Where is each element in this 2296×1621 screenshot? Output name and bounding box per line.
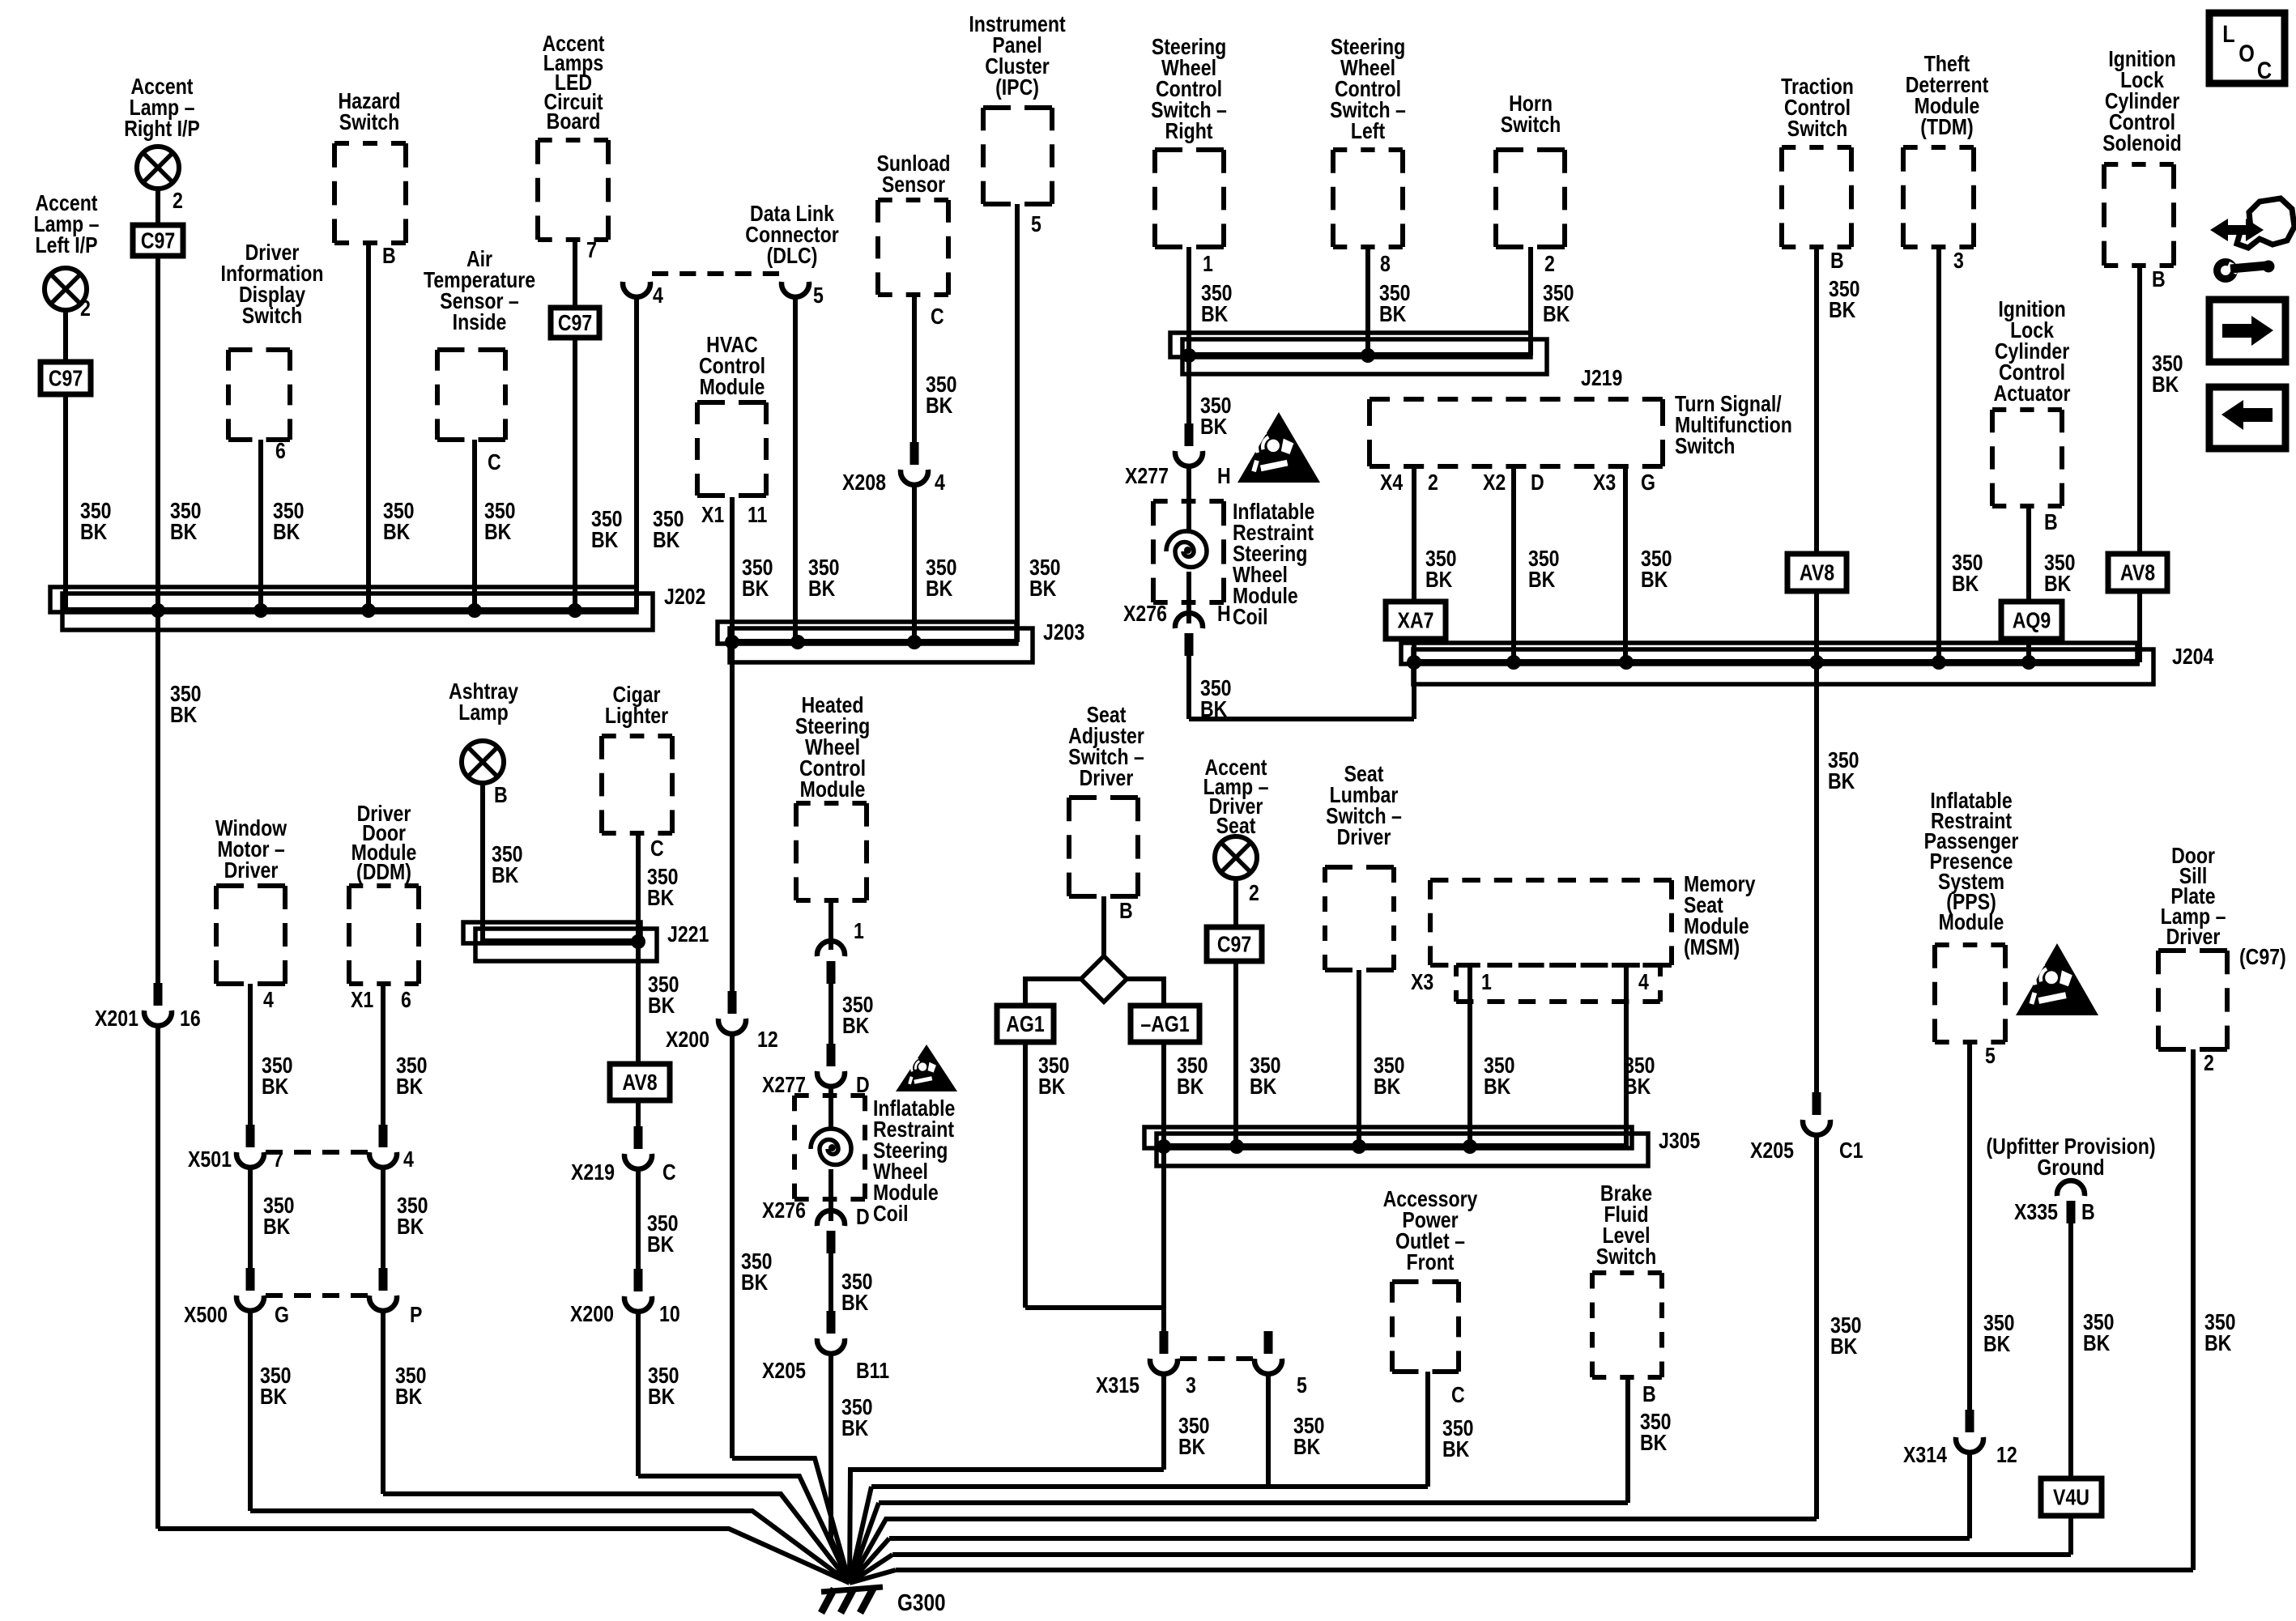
svg-text:L: L <box>2222 20 2234 48</box>
svg-text:X276: X276 <box>1123 602 1167 626</box>
svg-text:350BK: 350BK <box>1543 281 1574 326</box>
svg-text:IgnitionLockCylinderControlSol: IgnitionLockCylinderControlSolenoid <box>2102 47 2181 155</box>
svg-text:350BK: 350BK <box>842 993 874 1038</box>
svg-text:12: 12 <box>757 1027 778 1052</box>
svg-text:350BK: 350BK <box>492 842 523 887</box>
svg-text:350BK: 350BK <box>1029 555 1061 601</box>
svg-text:X335: X335 <box>2014 1200 2058 1224</box>
svg-text:X200: X200 <box>666 1027 709 1052</box>
svg-text:350BK: 350BK <box>648 1364 679 1409</box>
svg-text:350BK: 350BK <box>1952 551 1983 596</box>
svg-text:CigarLighter: CigarLighter <box>605 683 668 728</box>
svg-text:350BK: 350BK <box>1640 1410 1672 1455</box>
svg-text:350BK: 350BK <box>1178 1414 1210 1459</box>
svg-text:D: D <box>856 1073 870 1097</box>
svg-text:350BK: 350BK <box>2044 551 2076 596</box>
svg-text:X276: X276 <box>762 1198 806 1223</box>
svg-text:7: 7 <box>273 1147 283 1172</box>
svg-text:WindowMotor –Driver: WindowMotor –Driver <box>215 816 287 883</box>
svg-text:350BK: 350BK <box>926 372 957 418</box>
svg-text:TractionControlSwitch: TractionControlSwitch <box>1781 74 1854 141</box>
svg-text:4: 4 <box>403 1147 414 1172</box>
svg-text:D: D <box>1531 470 1544 495</box>
svg-text:C: C <box>2257 57 2272 84</box>
svg-text:AshtrayLamp: AshtrayLamp <box>449 679 518 725</box>
svg-text:J219: J219 <box>1581 366 1622 390</box>
svg-text:350BK: 350BK <box>1177 1053 1208 1099</box>
svg-text:J221: J221 <box>667 922 709 947</box>
svg-text:C97: C97 <box>141 229 175 253</box>
svg-text:IgnitionLockCylinderControlAct: IgnitionLockCylinderControlActuator <box>1994 297 2071 406</box>
svg-text:11: 11 <box>748 503 767 527</box>
svg-text:350BK: 350BK <box>170 499 202 544</box>
svg-text:X205: X205 <box>762 1359 806 1383</box>
svg-text:HazardSwitch: HazardSwitch <box>339 89 401 134</box>
svg-text:3: 3 <box>1186 1373 1196 1398</box>
svg-text:350BK: 350BK <box>741 1249 773 1295</box>
svg-text:SunloadSensor: SunloadSensor <box>876 151 950 197</box>
svg-text:–AG1: –AG1 <box>1140 1012 1189 1036</box>
svg-text:7: 7 <box>586 238 597 262</box>
svg-text:X2: X2 <box>1483 470 1506 495</box>
svg-text:X205: X205 <box>1750 1138 1794 1163</box>
svg-text:5: 5 <box>1297 1373 1307 1398</box>
svg-text:6: 6 <box>275 439 286 463</box>
svg-text:5: 5 <box>1985 1044 1996 1068</box>
svg-text:HVACControlModule: HVACControlModule <box>699 333 765 399</box>
svg-text:AQ9: AQ9 <box>2013 609 2051 633</box>
svg-text:2: 2 <box>1249 881 1259 905</box>
svg-text:3: 3 <box>1953 249 1964 273</box>
svg-text:350BK: 350BK <box>263 1193 295 1239</box>
svg-text:C: C <box>488 450 501 474</box>
svg-text:X314: X314 <box>1903 1443 1947 1467</box>
svg-text:D: D <box>856 1205 870 1229</box>
svg-text:C: C <box>662 1160 676 1185</box>
svg-text:2: 2 <box>173 189 183 213</box>
svg-text:350BK: 350BK <box>1250 1053 1281 1099</box>
svg-text:350BK: 350BK <box>648 972 679 1018</box>
svg-text:350BK: 350BK <box>841 1395 873 1440</box>
svg-text:C97: C97 <box>558 311 592 335</box>
svg-text:AV8: AV8 <box>622 1070 657 1095</box>
svg-text:350BK: 350BK <box>1442 1416 1474 1461</box>
svg-text:X219: X219 <box>571 1160 615 1185</box>
svg-text:X201: X201 <box>95 1006 138 1031</box>
svg-text:350BK: 350BK <box>1528 547 1560 592</box>
svg-text:AccentLamp –Left I/P: AccentLamp –Left I/P <box>34 191 100 257</box>
svg-text:350BK: 350BK <box>1641 547 1672 592</box>
svg-text:350BK: 350BK <box>484 499 516 544</box>
svg-text:H: H <box>1217 602 1231 626</box>
svg-text:C: C <box>1451 1383 1465 1407</box>
svg-text:J202: J202 <box>664 585 705 609</box>
svg-text:B: B <box>1830 249 1844 273</box>
svg-text:X1: X1 <box>351 988 373 1012</box>
svg-text:4: 4 <box>1638 970 1649 994</box>
svg-text:B11: B11 <box>856 1359 889 1383</box>
svg-text:350BK: 350BK <box>1484 1053 1515 1099</box>
svg-text:V4U: V4U <box>2053 1486 2089 1510</box>
svg-text:X208: X208 <box>842 470 886 495</box>
svg-text:350BK: 350BK <box>395 1364 427 1409</box>
svg-text:350BK: 350BK <box>396 1053 428 1099</box>
svg-text:AV8: AV8 <box>2120 561 2155 585</box>
svg-text:10: 10 <box>659 1302 680 1326</box>
svg-text:8: 8 <box>1380 252 1391 276</box>
svg-text:2: 2 <box>80 296 91 321</box>
svg-text:B: B <box>494 783 508 807</box>
svg-text:350BK: 350BK <box>1374 1053 1405 1099</box>
svg-text:X3: X3 <box>1411 970 1433 994</box>
svg-text:AV8: AV8 <box>1800 561 1834 585</box>
svg-text:P: P <box>410 1303 422 1327</box>
svg-text:350BK: 350BK <box>1200 394 1232 439</box>
svg-text:1: 1 <box>854 919 864 943</box>
svg-text:X500: X500 <box>184 1303 228 1327</box>
svg-text:350BK: 350BK <box>273 499 305 544</box>
svg-text:H: H <box>1217 464 1231 488</box>
svg-text:X3: X3 <box>1593 470 1616 495</box>
svg-text:350BK: 350BK <box>262 1053 293 1099</box>
svg-text:2: 2 <box>1544 252 1555 276</box>
svg-text:16: 16 <box>180 1006 201 1031</box>
svg-text:X1: X1 <box>701 503 724 527</box>
svg-text:350BK: 350BK <box>841 1270 873 1315</box>
svg-text:O: O <box>2238 40 2255 67</box>
svg-text:X501: X501 <box>188 1147 232 1172</box>
svg-text:G: G <box>275 1303 289 1327</box>
svg-text:C97: C97 <box>49 367 83 391</box>
svg-text:12: 12 <box>1996 1443 2017 1467</box>
svg-text:350BK: 350BK <box>383 499 415 544</box>
svg-text:DriverDoorModule(DDM): DriverDoorModule(DDM) <box>351 802 417 884</box>
svg-text:4: 4 <box>653 283 663 308</box>
svg-text:350BK: 350BK <box>260 1364 292 1409</box>
svg-text:350BK: 350BK <box>1293 1414 1325 1459</box>
svg-text:5: 5 <box>1031 212 1042 236</box>
svg-text:J204: J204 <box>2172 645 2213 669</box>
svg-text:C1: C1 <box>1839 1138 1864 1163</box>
svg-text:350BK: 350BK <box>653 507 684 552</box>
svg-text:350BK: 350BK <box>742 555 773 601</box>
svg-text:B: B <box>2044 510 2058 534</box>
svg-text:X277: X277 <box>762 1073 806 1097</box>
svg-text:5: 5 <box>813 283 824 308</box>
svg-text:350BK: 350BK <box>397 1193 428 1239</box>
svg-text:350BK: 350BK <box>1425 547 1457 592</box>
svg-text:350BK: 350BK <box>1038 1053 1070 1099</box>
svg-text:350BK: 350BK <box>1829 277 1860 322</box>
svg-text:J203: J203 <box>1043 620 1084 645</box>
svg-text:XA7: XA7 <box>1398 609 1434 633</box>
svg-text:X200: X200 <box>570 1302 614 1326</box>
svg-text:350BK: 350BK <box>647 865 679 910</box>
svg-text:(C97): (C97) <box>2239 945 2286 969</box>
svg-text:350BK: 350BK <box>1200 676 1232 721</box>
svg-text:G300: G300 <box>897 1589 946 1615</box>
svg-text:HornSwitch: HornSwitch <box>1501 91 1561 137</box>
svg-text:1: 1 <box>1481 970 1492 994</box>
svg-text:B: B <box>2081 1200 2095 1224</box>
svg-text:AccentLamp –Right I/P: AccentLamp –Right I/P <box>124 74 200 141</box>
svg-text:X315: X315 <box>1096 1373 1139 1398</box>
svg-text:350BK: 350BK <box>2083 1310 2115 1355</box>
svg-text:C: C <box>931 304 944 329</box>
svg-text:B: B <box>1119 899 1133 923</box>
svg-text:350BK: 350BK <box>647 1211 679 1257</box>
svg-text:1: 1 <box>1203 252 1213 276</box>
svg-text:BrakeFluidLevelSwitch: BrakeFluidLevelSwitch <box>1596 1181 1656 1269</box>
svg-text:6: 6 <box>401 988 411 1012</box>
svg-text:4: 4 <box>263 988 274 1012</box>
svg-text:350BK: 350BK <box>80 499 112 544</box>
svg-text:350BK: 350BK <box>591 507 623 552</box>
svg-text:J305: J305 <box>1659 1129 1700 1153</box>
svg-text:350BK: 350BK <box>1983 1311 2015 1356</box>
svg-text:2: 2 <box>1428 470 1438 495</box>
svg-text:4: 4 <box>935 470 945 495</box>
svg-text:C: C <box>650 836 664 861</box>
svg-text:X4: X4 <box>1380 470 1403 495</box>
svg-text:350BK: 350BK <box>1830 1313 1862 1359</box>
svg-text:HeatedSteeringWheelControlModu: HeatedSteeringWheelControlModule <box>795 693 870 802</box>
svg-text:B: B <box>1642 1382 1656 1406</box>
svg-text:X277: X277 <box>1125 464 1169 488</box>
svg-text:AG1: AG1 <box>1006 1012 1044 1036</box>
svg-text:350BK: 350BK <box>926 555 957 601</box>
svg-text:350BK: 350BK <box>1828 748 1859 793</box>
svg-text:B: B <box>382 244 396 268</box>
svg-text:350BK: 350BK <box>2204 1310 2236 1355</box>
svg-text:B: B <box>2152 267 2166 291</box>
svg-text:350BK: 350BK <box>808 555 840 601</box>
svg-text:350BK: 350BK <box>170 682 202 727</box>
svg-text:2: 2 <box>2204 1051 2214 1075</box>
svg-text:350BK: 350BK <box>2152 351 2183 397</box>
svg-text:350BK: 350BK <box>1201 281 1233 326</box>
svg-text:C97: C97 <box>1217 933 1251 957</box>
svg-text:G: G <box>1641 470 1655 495</box>
svg-text:350BK: 350BK <box>1379 281 1411 326</box>
svg-text:350BK: 350BK <box>1624 1053 1655 1099</box>
